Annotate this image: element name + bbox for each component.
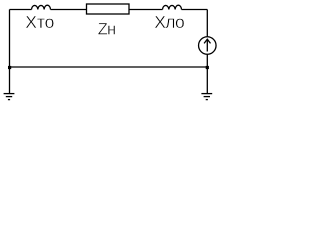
- current source I1 circle: [199, 37, 217, 55]
- svg-text:Хто: Хто: [25, 12, 54, 32]
- current source arrowhead: [204, 39, 210, 43]
- svg-text:Хло: Хло: [154, 12, 184, 32]
- inductor XLO (Хло): [163, 5, 182, 9]
- load box Zn: [87, 4, 130, 14]
- inductor XTO (Хто): [32, 5, 51, 9]
- wire left ground stem: [9, 67, 11, 93]
- wire right vertical lower: [206, 54, 208, 93]
- wire right vertical upper: [206, 10, 208, 38]
- wire box to inductor 2: [129, 9, 163, 11]
- current source arrow shaft: [206, 40, 208, 52]
- junction node right: [206, 66, 209, 69]
- wire bottom bus: [10, 66, 208, 68]
- ground right: [201, 94, 212, 100]
- wire inductor to box: [51, 9, 87, 11]
- svg-text:Zн: Zн: [98, 21, 115, 39]
- wire left vertical: [9, 10, 11, 68]
- wire inductor 2 to right corner: [182, 9, 208, 11]
- junction node left: [8, 66, 11, 69]
- ground left: [4, 94, 15, 100]
- wire top-left segment: [10, 9, 32, 11]
